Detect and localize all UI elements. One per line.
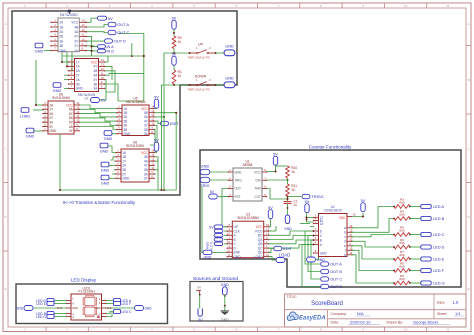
- svg-text:10: 10: [82, 37, 86, 41]
- junction: [409, 258, 411, 260]
- wire: [109, 164, 117, 166]
- wire: [269, 231, 314, 235]
- svg-text:Sheet:: Sheet:: [437, 312, 447, 316]
- svg-text:VCC: VCC: [71, 21, 78, 25]
- svg-text:660: 660: [399, 241, 404, 245]
- net flag LED G: [421, 281, 445, 286]
- frame tick: [257, 3, 259, 8]
- wire: [84, 36, 98, 46]
- wire: [307, 213, 314, 222]
- wire: [61, 52, 63, 59]
- svg-text:2B: 2B: [59, 35, 63, 39]
- junction: [199, 294, 201, 296]
- wire: [212, 251, 227, 253]
- resistor R4: [394, 210, 410, 221]
- wire: [34, 307, 67, 309]
- svg-text:OUT A: OUT A: [330, 262, 342, 267]
- wire: [54, 303, 67, 305]
- wire: [79, 127, 118, 130]
- frame tick: [341, 327, 343, 332]
- wire: [311, 240, 321, 279]
- frame tick: [257, 327, 259, 332]
- power flag 5V: [361, 199, 366, 212]
- junction: [189, 84, 191, 86]
- wire: [307, 217, 314, 219]
- wire: [109, 34, 144, 74]
- frame tick: [426, 327, 428, 332]
- svg-text:3B: 3B: [93, 82, 97, 86]
- svg-text:OUT D: OUT D: [330, 284, 342, 289]
- wire: [224, 243, 227, 245]
- junction: [110, 307, 112, 309]
- wire: [84, 18, 98, 22]
- resistor R8: [394, 262, 410, 273]
- junction: [173, 52, 175, 54]
- wire: [174, 84, 190, 85]
- svg-text:U7: U7: [84, 97, 88, 101]
- junction: [59, 189, 61, 191]
- frame tick: [214, 3, 216, 8]
- svg-text:E: E: [468, 287, 470, 291]
- resistor R7: [394, 250, 410, 261]
- svg-text:GND: GND: [225, 45, 234, 49]
- wire: [287, 203, 289, 215]
- svg-text:GND: GND: [122, 177, 130, 181]
- svg-text:GND: GND: [101, 182, 110, 186]
- svg-text:a: a: [344, 226, 346, 230]
- GND net label: [100, 143, 109, 154]
- resistor R11: [286, 184, 297, 196]
- junction: [287, 179, 289, 181]
- wire: [71, 52, 73, 59]
- svg-text:14: 14: [266, 253, 270, 257]
- section box: 9-0 Transition & Button Functionality: [12, 11, 237, 195]
- net flag EDIT: [274, 246, 293, 251]
- junction: [143, 55, 145, 57]
- junction: [275, 171, 277, 173]
- wire: [199, 295, 201, 309]
- GND net label: [53, 83, 62, 94]
- net flag OUT D: [321, 284, 343, 289]
- svg-text:13: 13: [82, 23, 86, 27]
- svg-text:1k: 1k: [178, 74, 182, 78]
- frame tick: [130, 3, 132, 8]
- power flag 5V: [172, 52, 177, 65]
- wire: [62, 61, 69, 63]
- svg-text:GND: GND: [49, 129, 57, 133]
- wire: [224, 230, 227, 232]
- wire: [302, 245, 321, 287]
- svg-text:GND: GND: [225, 77, 234, 81]
- junction: [224, 295, 226, 297]
- svg-text:VDD: VDD: [339, 216, 346, 220]
- svg-text:1u: 1u: [294, 203, 298, 207]
- net flag OUT B: [321, 269, 343, 274]
- node (box anchor): [68, 10, 71, 13]
- svg-text:SN74LS32N: SN74LS32N: [126, 144, 144, 148]
- svg-text:LE: LE: [320, 222, 324, 226]
- wire: [79, 105, 118, 109]
- GND flag (U3 left): [203, 250, 212, 259]
- wire: [410, 282, 421, 284]
- svg-text:OUT: OUT: [234, 187, 241, 191]
- junction: [313, 244, 315, 246]
- 7-segment display LED1: [66, 286, 107, 320]
- wire: [275, 166, 277, 172]
- svg-text:Counter Functionality: Counter Functionality: [309, 144, 352, 149]
- svg-text:11: 11: [101, 71, 104, 75]
- svg-text:TAEP-250A-Q-T/R: TAEP-250A-Q-T/R: [187, 87, 209, 91]
- net flag LED B: [36, 311, 54, 316]
- frame tick: [341, 3, 343, 8]
- IC U8 SN74LS32N: [115, 140, 155, 182]
- svg-text:OUT B: OUT B: [330, 269, 342, 274]
- title texts: [287, 295, 465, 324]
- wire: [112, 173, 117, 175]
- wire: [54, 316, 67, 318]
- wire: [224, 196, 229, 198]
- wire: [269, 240, 314, 244]
- svg-text:Date:: Date:: [331, 320, 340, 324]
- switch DOWN: [187, 75, 215, 92]
- wire: [110, 157, 117, 160]
- svg-text:LED C: LED C: [433, 232, 445, 237]
- svg-text:GND: GND: [101, 169, 110, 173]
- wire: [106, 312, 112, 317]
- power flag 5V: [305, 200, 310, 213]
- svg-text:N/A: N/A: [357, 311, 364, 316]
- svg-text:11: 11: [82, 33, 85, 37]
- svg-text:5V: 5V: [198, 318, 203, 322]
- wire: [275, 226, 277, 231]
- junction: [57, 307, 59, 309]
- wire: [67, 65, 69, 67]
- wire: [410, 246, 421, 248]
- wire: [410, 234, 421, 236]
- wire: [352, 213, 363, 217]
- wire: [410, 206, 421, 208]
- GND net label: [101, 162, 110, 173]
- frame tick: [45, 3, 47, 8]
- svg-text:TRIGG: TRIGG: [311, 194, 323, 199]
- net flag LED F: [114, 301, 132, 306]
- wire: [410, 218, 421, 220]
- junction: [362, 216, 364, 218]
- wire: [154, 157, 162, 190]
- wire: [60, 189, 176, 191]
- svg-text:GND: GND: [59, 49, 67, 53]
- svg-text:OUT C: OUT C: [117, 30, 129, 35]
- svg-text:GND: GND: [317, 258, 325, 262]
- junction: [224, 305, 226, 307]
- IC U1 NE555: [228, 159, 268, 201]
- net flag LED B: [421, 216, 445, 221]
- wire: [161, 85, 174, 190]
- wire: [64, 79, 69, 81]
- svg-text:TRIG: TRIG: [234, 179, 242, 183]
- VDD pin (U2): [339, 213, 356, 220]
- power flag 5V: [91, 98, 107, 103]
- wire: [269, 236, 314, 240]
- svg-text:Company:: Company:: [331, 312, 347, 316]
- frame tick: [466, 250, 471, 252]
- wire: [154, 169, 159, 171]
- section box: LED Display: [16, 284, 168, 324]
- svg-text:LED G: LED G: [36, 315, 47, 319]
- frame tick: [299, 3, 301, 8]
- wire: [352, 255, 395, 283]
- wire: [154, 121, 161, 123]
- wire: [105, 74, 111, 76]
- net flag EDIT: [161, 121, 180, 126]
- wire: [154, 149, 157, 153]
- IC U4 SN74LS08N: [50, 9, 87, 52]
- svg-text:GND: GND: [234, 170, 242, 174]
- frame tick: [299, 327, 301, 332]
- wire: [84, 45, 98, 48]
- frame tick: [214, 327, 216, 332]
- wire: [287, 178, 289, 184]
- wire: [34, 130, 44, 132]
- junction: [215, 52, 217, 54]
- net flag LED F: [421, 268, 445, 273]
- wire: [224, 239, 227, 241]
- svg-text:TITLE:: TITLE:: [287, 295, 297, 299]
- wire: [106, 307, 134, 309]
- svg-text:IN A: IN A: [107, 45, 115, 49]
- wire: [173, 30, 175, 37]
- svg-text:LOAD: LOAD: [254, 255, 263, 259]
- junction: [173, 84, 175, 86]
- wire: [131, 43, 133, 56]
- junction: [409, 234, 411, 236]
- wire: [44, 104, 47, 106]
- net flag (counter input 0): [214, 229, 223, 232]
- wire: [224, 295, 226, 311]
- svg-text:g: g: [344, 253, 346, 257]
- junction: [287, 207, 289, 209]
- svg-text:VCC: VCC: [254, 170, 261, 174]
- svg-text:12: 12: [101, 67, 105, 71]
- svg-text:GND: GND: [16, 307, 24, 311]
- resistor R3: [394, 198, 410, 209]
- junction: [393, 218, 395, 220]
- svg-text:B: B: [468, 78, 470, 82]
- junction: [306, 217, 308, 219]
- svg-text:George Ebeid: George Ebeid: [413, 319, 438, 324]
- wire: [105, 84, 144, 101]
- junction: [393, 258, 395, 260]
- junction: [175, 112, 177, 114]
- wire: [352, 241, 395, 247]
- net flag OUT C: [321, 277, 343, 282]
- wire: [79, 122, 118, 125]
- svg-text:GND: GND: [204, 256, 212, 260]
- wire: [202, 186, 203, 252]
- svg-text:660: 660: [399, 213, 404, 217]
- frame tick: [3, 250, 8, 252]
- wire: [62, 55, 144, 57]
- svg-text:EasyEDA: EasyEDA: [299, 316, 326, 322]
- junction: [313, 235, 315, 237]
- resistor R10: [286, 166, 298, 178]
- junction: [313, 239, 315, 241]
- junction: [313, 230, 315, 232]
- svg-text:RST: RST: [234, 195, 240, 199]
- svg-text:13: 13: [101, 63, 105, 67]
- wire: [108, 133, 118, 135]
- svg-text:GND: GND: [284, 227, 292, 231]
- frame tick: [426, 3, 428, 8]
- section box: Counter Functionality: [200, 150, 461, 287]
- svg-text:TAEP-250A-Q-T/R: TAEP-250A-Q-T/R: [187, 55, 209, 59]
- wire: [106, 303, 114, 305]
- junction: [306, 219, 308, 221]
- wire: [114, 169, 117, 171]
- junction: [160, 189, 162, 191]
- junction: [215, 84, 217, 86]
- svg-text:1.0: 1.0: [453, 300, 459, 305]
- junction: [189, 52, 191, 54]
- svg-text:E: E: [5, 287, 7, 291]
- junction: [91, 50, 93, 52]
- wire: [105, 56, 109, 62]
- svg-text:LED E: LED E: [433, 257, 445, 262]
- net flag LED A: [421, 204, 445, 209]
- svg-text:FJ-2101AH: FJ-2101AH: [78, 290, 95, 294]
- svg-text:EDIT: EDIT: [283, 246, 292, 251]
- wire: [84, 25, 108, 28]
- net flag LED C: [421, 232, 445, 237]
- frame tick: [45, 327, 47, 332]
- wire: [79, 118, 118, 121]
- svg-text:1B: 1B: [59, 25, 63, 29]
- svg-text:OUT D: OUT D: [114, 39, 126, 44]
- svg-text:UP: UP: [198, 43, 204, 47]
- wire: [33, 109, 44, 111]
- wire: [410, 258, 421, 260]
- wire: [64, 87, 69, 89]
- section box: Sources and Ground: [190, 282, 243, 322]
- GND net label: [104, 131, 113, 142]
- svg-text:d: d: [344, 240, 346, 244]
- svg-text:LED G: LED G: [433, 281, 445, 286]
- GND flag below C1: [284, 215, 292, 231]
- svg-text:GND: GND: [123, 132, 131, 136]
- wire: [288, 196, 302, 198]
- EasyEDA logo: [287, 312, 325, 322]
- svg-text:5V: 5V: [198, 285, 202, 289]
- svg-text:10: 10: [404, 328, 408, 332]
- svg-text:LED F: LED F: [433, 268, 445, 273]
- wire: [222, 189, 229, 227]
- GND flag (display left): [16, 306, 33, 311]
- net flag GND (555): [200, 165, 210, 175]
- svg-text:660: 660: [399, 229, 404, 233]
- wire: [44, 121, 47, 123]
- wire: [105, 71, 116, 92]
- junction: [409, 218, 411, 220]
- wire: [54, 313, 67, 315]
- svg-text:3B: 3B: [59, 44, 63, 48]
- GND flag (U2): [307, 257, 326, 262]
- wire: [276, 165, 288, 167]
- svg-text:5V: 5V: [108, 16, 113, 21]
- svg-text:NE555: NE555: [243, 163, 253, 167]
- frame tick: [172, 327, 174, 332]
- title block: [285, 294, 467, 327]
- svg-text:Drawn By:: Drawn By:: [387, 320, 404, 324]
- wire: [352, 246, 395, 259]
- svg-text:GND: GND: [95, 306, 101, 310]
- resistor R5: [394, 226, 410, 237]
- svg-text:Sources and Ground: Sources and Ground: [193, 276, 238, 282]
- svg-text:14: 14: [101, 58, 105, 62]
- wire: [114, 160, 117, 162]
- svg-text:VCC: VCC: [91, 60, 98, 64]
- wire: [61, 59, 63, 63]
- power flag 5V (source): [198, 309, 203, 322]
- svg-text:660: 660: [399, 277, 404, 281]
- wire: [143, 73, 145, 101]
- svg-text:LED Display: LED Display: [71, 278, 97, 283]
- svg-text:10: 10: [101, 76, 105, 80]
- wire: [154, 108, 157, 110]
- svg-text:1k: 1k: [291, 188, 295, 192]
- svg-text:1k: 1k: [291, 170, 295, 174]
- wire: [218, 196, 229, 198]
- net flag LED C: [114, 309, 133, 314]
- svg-text:660: 660: [399, 265, 404, 269]
- power flag 5V: [268, 206, 273, 219]
- GND flag (display right): [135, 306, 153, 311]
- wire: [71, 59, 73, 71]
- junction: [287, 198, 289, 200]
- wire: [352, 235, 395, 237]
- wire: [66, 59, 68, 67]
- wire: [154, 130, 156, 153]
- wire: [267, 189, 288, 200]
- wire: [64, 74, 69, 76]
- junction: [409, 270, 411, 272]
- wire: [269, 219, 271, 227]
- wire: [99, 80, 106, 100]
- svg-text:LED B: LED B: [433, 216, 445, 221]
- svg-text:DIS: DIS: [255, 179, 260, 183]
- net flag LED A: [114, 298, 132, 303]
- wire: [79, 109, 118, 112]
- wire: [210, 171, 229, 173]
- power flag 5V: [273, 152, 278, 165]
- wire: [54, 300, 67, 302]
- svg-text:4B: 4B: [93, 69, 97, 73]
- IC U3 SN74LS193BN: [227, 213, 270, 259]
- svg-text:4B: 4B: [74, 25, 78, 29]
- frame tick: [466, 45, 471, 47]
- net flag LED G: [36, 314, 54, 319]
- capacitor C1: [284, 199, 298, 207]
- wire: [352, 207, 395, 228]
- wire: [106, 300, 114, 302]
- wire: [79, 114, 118, 117]
- svg-text:f: f: [345, 249, 346, 253]
- svg-text:GND: GND: [104, 137, 113, 141]
- svg-text:2020-02-10: 2020-02-10: [350, 319, 371, 324]
- svg-text:SN74LS04N: SN74LS04N: [52, 96, 70, 100]
- power flag 5V: [97, 16, 113, 21]
- junction: [35, 104, 37, 106]
- wire: [35, 60, 37, 105]
